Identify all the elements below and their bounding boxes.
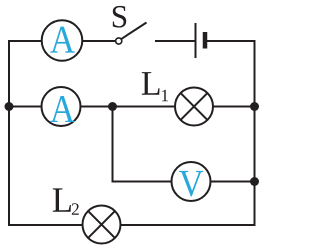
node: junction left rail / middle row [5, 102, 14, 111]
label L1 [142, 72, 168, 101]
ammeter A2 [42, 87, 81, 126]
label L2 [53, 188, 79, 214]
wire: voltmeter row [112, 181, 255, 183]
wire: switch to battery [155, 40, 195, 42]
lamp L1 [175, 88, 213, 126]
wire: right rail vertical [254, 40, 256, 226]
node: junction right rail / voltmeter row [250, 177, 259, 186]
battery BT1: long plate [195, 23, 197, 58]
wire: battery to right rail [206, 40, 256, 42]
lamp L2 [83, 206, 121, 244]
ammeter A1 [42, 20, 83, 61]
battery BT1: short thick plate [203, 32, 208, 49]
voltmeter V1 [172, 162, 211, 201]
wire: bottom rail through L2 [9, 224, 256, 226]
wire: left rail vertical [8, 40, 10, 226]
switch S [113, 6, 147, 44]
wire: branch vertical from node B down to voltmeter row [112, 107, 114, 183]
wire: A1 to switch pivot [80, 40, 116, 42]
wire: top-left horizontal (left rail to ammeter A1) [8, 40, 44, 42]
node: junction middle row / branch [108, 102, 117, 111]
wire: middle row through A2 and L1 [9, 106, 255, 108]
node: junction right rail / middle row [250, 102, 259, 111]
